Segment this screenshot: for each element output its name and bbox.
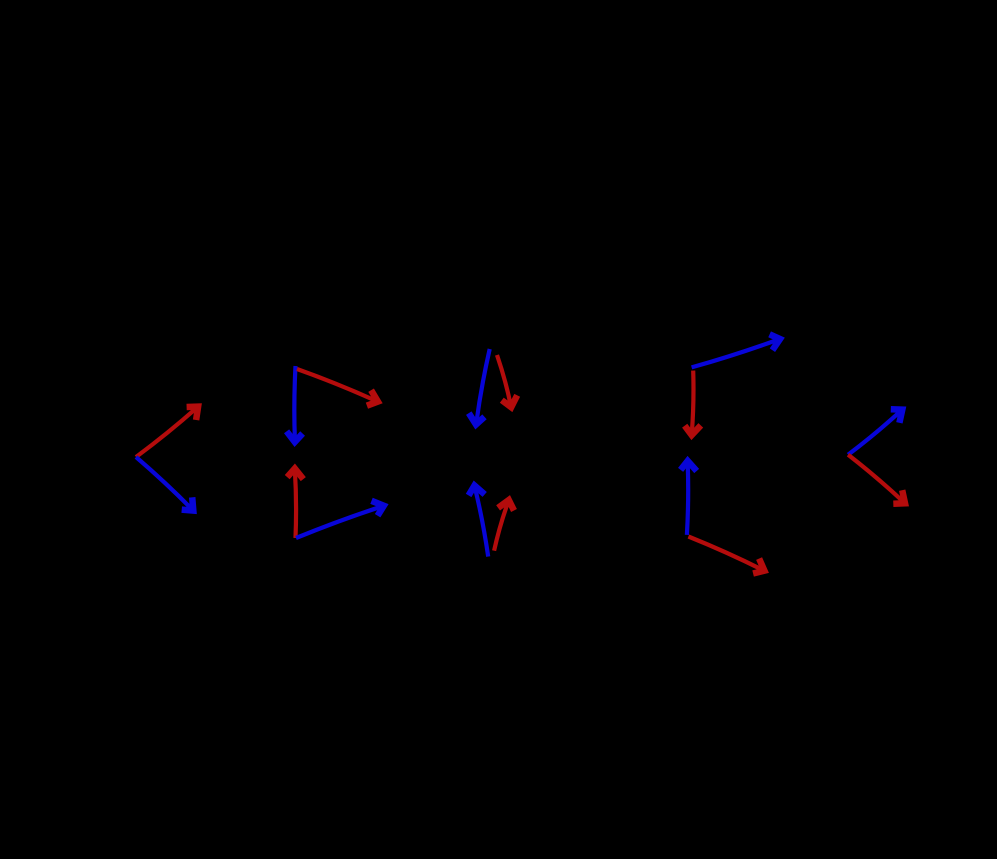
arrow A6 cluster2 blue right-up <box>296 501 384 538</box>
arrow A10 cluster3 red up-right <box>494 500 514 551</box>
arrow A15 cluster5 blue up-right <box>848 409 902 455</box>
arrow A12 cluster4 red down <box>685 371 701 436</box>
arrow A11 cluster4 blue up-right <box>692 334 780 367</box>
arrow A2 cluster1 blue down-right <box>136 457 193 511</box>
arrow A14 cluster4 red down-right <box>688 537 764 574</box>
arrow A7 cluster3 blue down <box>469 349 490 425</box>
arrow A8 cluster3 red down-right <box>497 355 517 407</box>
arrow A5 cluster2 red up <box>287 469 303 539</box>
arrow A9 cluster3 blue up <box>469 486 489 557</box>
arrow A1 cluster1 red up-right <box>136 407 198 457</box>
arrow A3 cluster2 blue down <box>287 366 303 442</box>
arrow A16 cluster5 red down-right <box>848 455 905 504</box>
arrow A13 cluster4 blue up <box>681 461 697 535</box>
arrow A4 cluster2 red right-down <box>297 369 378 406</box>
